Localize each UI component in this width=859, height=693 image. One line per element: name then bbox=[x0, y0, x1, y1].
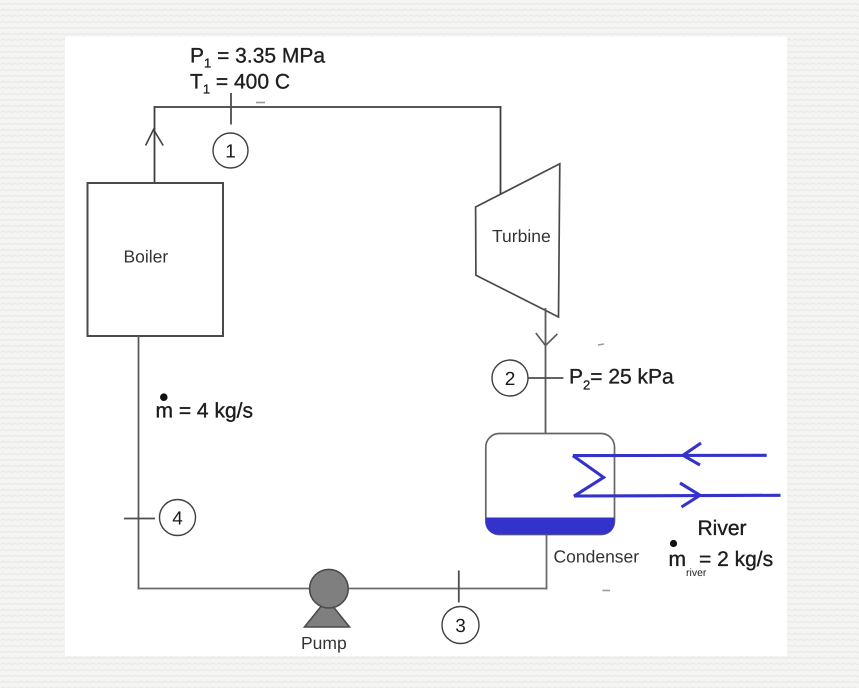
arrowhead left on river inlet bbox=[683, 443, 701, 465]
turbine T bbox=[476, 164, 560, 317]
svg-text:River: River bbox=[698, 517, 747, 540]
svg-text:Condenser: Condenser bbox=[554, 547, 640, 567]
wire: boiler feed line (left vertical) bbox=[138, 336, 140, 589]
svg-text:2: 2 bbox=[505, 369, 516, 390]
node 2 circle bbox=[492, 360, 528, 396]
arrowhead up on riser bbox=[146, 130, 164, 146]
river outlet line (lower blue) bbox=[574, 494, 781, 498]
river inlet line (upper blue) bbox=[573, 454, 767, 457]
node 3 tick bbox=[458, 571, 460, 603]
stray mark bbox=[598, 344, 604, 345]
stray mark bbox=[603, 590, 611, 592]
svg-text:m = 4 kg/s: m = 4 kg/s bbox=[156, 400, 253, 423]
svg-text:Boiler: Boiler bbox=[124, 247, 169, 267]
boiler B bbox=[88, 183, 224, 336]
node 3 circle bbox=[442, 607, 479, 644]
node 4 tick bbox=[124, 518, 155, 520]
pump P bbox=[305, 569, 350, 627]
svg-text:= 2 kg/s: = 2 kg/s bbox=[699, 548, 773, 571]
node 1 tick bbox=[230, 93, 232, 125]
wire: bottom return line bbox=[138, 588, 548, 590]
condenser C bbox=[486, 434, 615, 535]
river coil zigzag bbox=[573, 456, 604, 497]
svg-text:3: 3 bbox=[455, 616, 466, 637]
label mdot river = 2 kg/s bbox=[669, 540, 774, 579]
wire: turbine inlet drop bbox=[500, 106, 502, 197]
wire: top horizontal steam line bbox=[154, 106, 502, 108]
label mdot = 4 kg/s bbox=[156, 393, 253, 422]
arrowhead down on exhaust bbox=[536, 333, 558, 346]
arrowhead right on river outlet bbox=[680, 483, 700, 507]
svg-text:Pump: Pump bbox=[301, 633, 347, 653]
node 4 circle bbox=[160, 500, 196, 536]
svg-text:4: 4 bbox=[172, 509, 183, 530]
svg-text:m: m bbox=[669, 548, 687, 571]
wire: boiler outlet riser bbox=[154, 106, 156, 183]
wire: condensate drop bbox=[546, 535, 548, 590]
node 1 circle bbox=[213, 133, 248, 168]
white slide area bbox=[65, 37, 787, 657]
condenser water fill bbox=[486, 518, 615, 535]
svg-text:1: 1 bbox=[225, 142, 236, 163]
stray mark bbox=[256, 102, 265, 104]
wire: turbine exhaust drop bbox=[545, 308, 547, 434]
svg-text:Turbine: Turbine bbox=[492, 226, 551, 246]
node 2 tick bbox=[529, 377, 564, 379]
svg-text:P1 = 3.35 MPa: P1 = 3.35 MPa bbox=[190, 45, 325, 71]
